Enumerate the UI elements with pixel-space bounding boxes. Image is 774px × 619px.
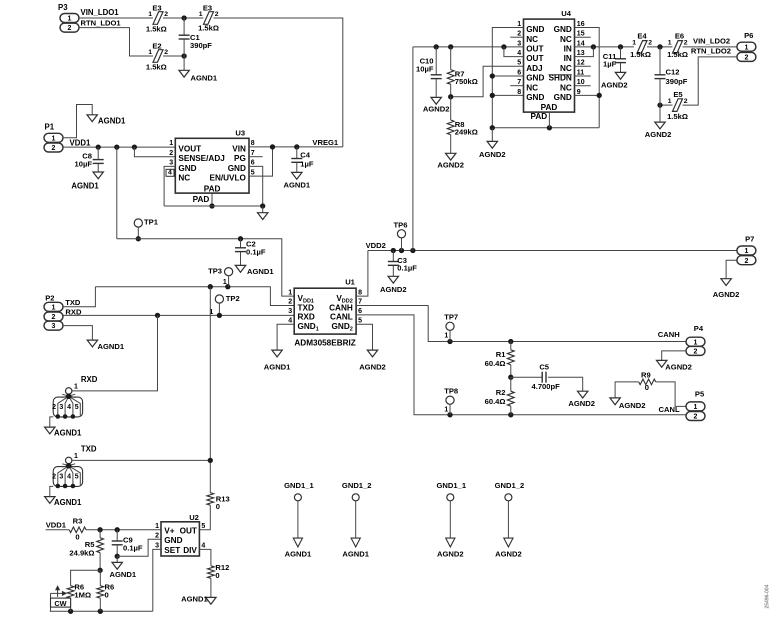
svg-text:0: 0 bbox=[215, 571, 219, 580]
svg-text:0.1µF: 0.1µF bbox=[123, 543, 143, 552]
svg-text:10: 10 bbox=[577, 79, 585, 86]
wire P3.1 to E3a bbox=[79, 17, 153, 19]
svg-text:TXD: TXD bbox=[65, 298, 81, 307]
svg-text:GND: GND bbox=[554, 93, 572, 102]
svg-text:2: 2 bbox=[215, 11, 219, 18]
wire E2 to C1 node bbox=[163, 55, 184, 57]
resistor R2 bbox=[485, 377, 515, 415]
header RXD bbox=[45, 375, 98, 437]
svg-text:AGND1: AGND1 bbox=[191, 74, 218, 83]
svg-text:GND: GND bbox=[526, 25, 544, 34]
svg-text:AGND1: AGND1 bbox=[98, 117, 126, 126]
capacitor C11 bbox=[603, 47, 626, 73]
svg-text:390pF: 390pF bbox=[666, 77, 688, 86]
svg-text:VDD1: VDD1 bbox=[70, 139, 91, 148]
svg-text:OUT: OUT bbox=[526, 45, 543, 54]
svg-text:3: 3 bbox=[155, 543, 159, 550]
svg-text:5: 5 bbox=[201, 523, 205, 530]
svg-text:10µF: 10µF bbox=[75, 160, 93, 169]
ground AGND2 below C3 bbox=[380, 276, 407, 294]
junction bbox=[547, 125, 552, 130]
svg-text:1MΩ: 1MΩ bbox=[74, 591, 91, 600]
svg-text:3: 3 bbox=[59, 404, 63, 411]
svg-text:SENSE/ADJ: SENSE/ADJ bbox=[178, 154, 224, 163]
ground AGND1 below C1 bbox=[179, 56, 218, 83]
svg-text:2: 2 bbox=[744, 55, 748, 62]
svg-text:60.4Ω: 60.4Ω bbox=[485, 397, 506, 406]
junction bbox=[97, 527, 102, 532]
svg-text:1.5kΩ: 1.5kΩ bbox=[667, 112, 688, 121]
svg-text:5: 5 bbox=[358, 318, 362, 325]
svg-text:CANL: CANL bbox=[330, 313, 353, 322]
svg-text:AGND1: AGND1 bbox=[284, 181, 311, 190]
ground AGND1 below P2 bbox=[87, 340, 125, 351]
wire U4 pin2 NC stub bbox=[510, 36, 523, 38]
capacitor C12 bbox=[655, 47, 688, 105]
svg-text:4: 4 bbox=[67, 474, 71, 481]
svg-text:PAD: PAD bbox=[531, 112, 548, 121]
svg-text:750kΩ: 750kΩ bbox=[455, 77, 478, 86]
junction bbox=[181, 15, 186, 20]
svg-text:PAD: PAD bbox=[204, 184, 221, 193]
svg-text:1: 1 bbox=[744, 248, 748, 255]
svg-text:9: 9 bbox=[577, 89, 581, 96]
wire U4 pin11 SHDN stub bbox=[575, 75, 591, 77]
junction bbox=[294, 144, 299, 149]
junction bbox=[399, 248, 404, 253]
junction bbox=[508, 339, 513, 344]
junction bbox=[657, 102, 662, 107]
svg-text:249kΩ: 249kΩ bbox=[455, 128, 478, 137]
svg-text:ADJ: ADJ bbox=[526, 64, 542, 73]
svg-text:13: 13 bbox=[577, 50, 585, 57]
svg-text:P2: P2 bbox=[45, 293, 54, 302]
wire TXD rail to U1 pin2 bbox=[95, 287, 294, 306]
svg-text:CANH: CANH bbox=[329, 303, 353, 312]
svg-text:1.5kΩ: 1.5kΩ bbox=[146, 63, 167, 72]
svg-text:AGND2: AGND2 bbox=[437, 549, 464, 558]
svg-text:1: 1 bbox=[223, 279, 227, 286]
wire U4 pin13 IN to pin14 bbox=[575, 47, 594, 57]
junction bbox=[260, 203, 265, 208]
svg-text:V+: V+ bbox=[164, 526, 174, 535]
wire U1 pin8 to VDD2 rail bbox=[356, 251, 368, 297]
wire U4 PAD to ground rail bbox=[548, 112, 550, 128]
svg-text:AGND2: AGND2 bbox=[601, 80, 628, 89]
wire P1.1 to AGND1 bbox=[63, 105, 92, 138]
svg-text:2: 2 bbox=[288, 299, 292, 306]
junction bbox=[208, 284, 213, 289]
svg-text:2: 2 bbox=[52, 404, 56, 411]
svg-text:1: 1 bbox=[199, 11, 203, 18]
test point TP6 bbox=[394, 221, 408, 251]
svg-text:TP6: TP6 bbox=[394, 221, 408, 230]
test point GND1_2 (left) bbox=[342, 481, 372, 558]
svg-text:5: 5 bbox=[251, 169, 255, 176]
svg-text:1µF: 1µF bbox=[603, 60, 617, 69]
svg-text:14: 14 bbox=[577, 40, 585, 47]
wire R9 left to AGND2 bbox=[615, 382, 639, 398]
svg-text:2: 2 bbox=[517, 31, 521, 38]
svg-text:C4: C4 bbox=[300, 151, 310, 160]
resistor R13 bbox=[207, 493, 230, 511]
svg-text:NC: NC bbox=[526, 83, 538, 92]
wire U4 pin3 OUT rail bbox=[413, 46, 524, 48]
ground AGND1 below C2 bbox=[235, 265, 274, 276]
svg-text:7: 7 bbox=[517, 79, 521, 86]
svg-text:GND1: GND1 bbox=[298, 322, 319, 333]
junction bbox=[490, 73, 495, 78]
resistor R8 bbox=[447, 97, 477, 154]
svg-text:GND: GND bbox=[554, 25, 572, 34]
svg-text:AGND2: AGND2 bbox=[437, 161, 464, 170]
wire U2 pin3 SET to bottom rail bbox=[153, 549, 161, 611]
capacitor C8 bbox=[75, 147, 104, 172]
svg-text:1: 1 bbox=[288, 289, 292, 296]
svg-text:P5: P5 bbox=[695, 390, 705, 399]
junction bbox=[434, 44, 439, 49]
svg-text:NC: NC bbox=[526, 35, 538, 44]
wire U4 left GND bracket bbox=[492, 28, 523, 128]
wire U4 pin6 to bracket bbox=[492, 75, 523, 77]
ground AGND1 top bbox=[87, 115, 126, 126]
svg-text:3: 3 bbox=[169, 160, 173, 167]
wire P6.2 to E5 bbox=[683, 57, 737, 105]
IC U4 bbox=[517, 9, 584, 112]
wire RXD rail P2.2 to U1 pin3 bbox=[63, 314, 294, 316]
net label RTN_LDO1 bbox=[81, 19, 122, 28]
wire P3.2 to E2 bbox=[79, 28, 153, 56]
net label VIN_LDO1 bbox=[81, 8, 120, 17]
svg-text:GND: GND bbox=[526, 93, 544, 102]
svg-text:25496-004: 25496-004 bbox=[765, 584, 771, 608]
wire U4 pin10 NC stub bbox=[575, 85, 591, 87]
junction bbox=[391, 248, 396, 253]
ground AGND2 below R8 bbox=[437, 153, 464, 169]
wire U4 right GND bracket bbox=[575, 28, 600, 128]
connector P4 bbox=[686, 324, 705, 355]
wire U4 pin15 NC stub bbox=[575, 36, 591, 38]
junction bbox=[447, 412, 452, 417]
svg-text:8: 8 bbox=[358, 289, 362, 296]
wire U4 pin12 NC stub bbox=[575, 65, 591, 67]
svg-text:NC: NC bbox=[560, 83, 572, 92]
ground AGND1 below C9 bbox=[110, 556, 137, 579]
resistor E4 bbox=[630, 32, 652, 59]
svg-text:AGND1: AGND1 bbox=[264, 362, 291, 371]
wire R5 bottom to potentiometer bbox=[71, 570, 101, 585]
net label CANL bbox=[659, 405, 680, 414]
wire U3 pin5 EN/UVLO to VIN bbox=[249, 147, 273, 176]
svg-text:AGND2: AGND2 bbox=[479, 150, 506, 159]
wire VDD1 rail to U1 pin1 bbox=[117, 239, 294, 296]
svg-text:16: 16 bbox=[577, 21, 585, 28]
svg-text:1: 1 bbox=[668, 98, 672, 105]
wire U2 pin4 DIV to R12 bbox=[199, 549, 211, 565]
junction bbox=[490, 93, 495, 98]
svg-text:1: 1 bbox=[668, 40, 672, 47]
svg-text:GND: GND bbox=[164, 536, 182, 545]
svg-text:PAD: PAD bbox=[541, 103, 558, 112]
svg-text:6: 6 bbox=[358, 308, 362, 315]
svg-text:8: 8 bbox=[251, 140, 255, 147]
resistor R9 bbox=[639, 371, 656, 392]
svg-text:1: 1 bbox=[52, 304, 56, 311]
capacitor C9 bbox=[112, 530, 143, 557]
svg-text:GND1_2: GND1_2 bbox=[495, 481, 525, 490]
svg-text:3: 3 bbox=[517, 40, 521, 47]
net label VDD2 bbox=[366, 241, 386, 250]
svg-text:4: 4 bbox=[168, 170, 172, 177]
svg-text:NC: NC bbox=[560, 64, 572, 73]
svg-text:AGND2: AGND2 bbox=[568, 399, 595, 408]
svg-text:E2: E2 bbox=[152, 41, 161, 50]
resistor R7 bbox=[447, 47, 477, 97]
wire TXD header to R13 node bbox=[72, 459, 210, 461]
wire U4 pin9 to bracket bbox=[575, 94, 600, 96]
svg-text:2: 2 bbox=[164, 49, 168, 56]
wire R3 to U2 pin1 bbox=[86, 529, 161, 531]
svg-text:GND1_1: GND1_1 bbox=[284, 481, 314, 490]
svg-text:1: 1 bbox=[632, 40, 636, 47]
junction bbox=[657, 44, 662, 49]
svg-text:E4: E4 bbox=[637, 32, 647, 41]
svg-text:P3: P3 bbox=[58, 3, 68, 12]
svg-text:0: 0 bbox=[216, 502, 220, 511]
wire U3 ground rail bbox=[164, 205, 263, 207]
wire VDD1 to R3 bbox=[46, 529, 69, 531]
wire R9 right to P5.1 bbox=[656, 382, 686, 407]
svg-text:U4: U4 bbox=[561, 9, 571, 18]
wire U3 pin8 VIN / VREG1 bbox=[249, 146, 343, 148]
capacitor C4 bbox=[291, 147, 314, 173]
wire CANH U1 pin7 to P4 bbox=[356, 306, 686, 342]
svg-text:GND2: GND2 bbox=[332, 322, 353, 333]
svg-text:CANL: CANL bbox=[659, 405, 680, 414]
wire U3 pin7 PG stub bbox=[249, 156, 263, 158]
svg-text:6: 6 bbox=[517, 69, 521, 76]
svg-text:1: 1 bbox=[52, 135, 56, 142]
junction bbox=[591, 44, 596, 49]
test point GND1_1 (left) bbox=[284, 481, 314, 558]
svg-text:0: 0 bbox=[105, 591, 109, 600]
svg-text:P4: P4 bbox=[694, 324, 704, 333]
svg-text:1: 1 bbox=[444, 333, 448, 340]
junction bbox=[447, 339, 452, 344]
connector P6 bbox=[737, 31, 756, 62]
resistor R5 bbox=[69, 530, 103, 571]
svg-text:VIN_LDO1: VIN_LDO1 bbox=[81, 8, 120, 17]
ground AGND2 below U4 bbox=[479, 128, 506, 159]
figure number bbox=[765, 584, 771, 608]
wire R13 to U2 pin5 OUT bbox=[199, 505, 210, 530]
svg-text:R3: R3 bbox=[73, 517, 83, 526]
resistor E5 bbox=[667, 90, 688, 121]
svg-text:0.1µF: 0.1µF bbox=[397, 263, 417, 272]
capacitor C1 bbox=[179, 18, 213, 56]
svg-text:GND: GND bbox=[178, 164, 196, 173]
svg-text:AGND1: AGND1 bbox=[54, 498, 82, 507]
capacitor C2 bbox=[235, 239, 266, 266]
wire CANL U1 pin6 to P5 bbox=[356, 315, 686, 415]
svg-text:IN: IN bbox=[564, 54, 572, 63]
svg-text:AGND2: AGND2 bbox=[495, 549, 522, 558]
svg-text:1.5kΩ: 1.5kΩ bbox=[630, 50, 651, 59]
wire P2.3 to AGND1 bbox=[63, 326, 92, 341]
svg-text:AGND1: AGND1 bbox=[285, 549, 312, 558]
svg-text:2: 2 bbox=[648, 40, 652, 47]
svg-text:5: 5 bbox=[75, 404, 79, 411]
test point GND1_2 (right) bbox=[495, 481, 525, 558]
svg-text:CW: CW bbox=[54, 599, 66, 608]
resistor R1 bbox=[485, 342, 515, 378]
ground below U3 bbox=[258, 206, 268, 220]
junction bbox=[181, 53, 186, 58]
svg-text:2: 2 bbox=[68, 25, 72, 32]
pin PAD label below U4 bbox=[531, 112, 548, 121]
svg-text:AGND1: AGND1 bbox=[71, 181, 99, 190]
test point GND1_1 (right) bbox=[437, 481, 467, 558]
junction bbox=[618, 44, 623, 49]
ground AGND2 below C12 bbox=[645, 105, 672, 139]
junction bbox=[68, 609, 73, 614]
svg-text:GND1_2: GND1_2 bbox=[342, 481, 372, 490]
wire VDD2 rail to P7 bbox=[368, 250, 737, 252]
wire U4 pin5 ADJ to R7/R8 node bbox=[451, 66, 524, 97]
junction bbox=[410, 248, 415, 253]
junction bbox=[96, 144, 101, 149]
svg-text:P7: P7 bbox=[745, 235, 754, 244]
resistor E3 (first) bbox=[146, 3, 168, 33]
wire U4 pin8 to bracket bbox=[492, 94, 523, 96]
wire LDO2 output to VDD2 rail bbox=[412, 47, 414, 251]
svg-text:TP2: TP2 bbox=[226, 294, 240, 303]
svg-text:3: 3 bbox=[59, 474, 63, 481]
net label VDD1 bbox=[70, 139, 91, 148]
label CW box bbox=[51, 598, 71, 608]
potentiometer R6 1M bbox=[51, 583, 92, 612]
wire VDD1 to TP1 rail bbox=[116, 147, 118, 239]
svg-text:EN/UVLO: EN/UVLO bbox=[209, 174, 246, 183]
test point TP1 bbox=[134, 218, 159, 239]
test point TP2 bbox=[209, 294, 239, 316]
svg-text:GND: GND bbox=[526, 74, 544, 83]
svg-text:1: 1 bbox=[744, 44, 748, 51]
ground AGND2 below P7 bbox=[713, 279, 740, 299]
svg-text:2: 2 bbox=[52, 474, 56, 481]
svg-text:PAD: PAD bbox=[193, 195, 210, 204]
wire P7.2 to AGND2 bbox=[726, 260, 737, 279]
svg-text:C12: C12 bbox=[666, 68, 680, 77]
svg-text:1: 1 bbox=[148, 49, 152, 56]
wire U3 PAD to ground rail bbox=[211, 193, 213, 206]
ground AGND2 below C5 bbox=[568, 391, 595, 408]
junction bbox=[115, 554, 120, 559]
svg-text:VIN: VIN bbox=[232, 145, 246, 154]
junction bbox=[208, 458, 213, 463]
svg-text:1: 1 bbox=[444, 406, 448, 413]
svg-text:1: 1 bbox=[517, 21, 521, 28]
svg-text:U1: U1 bbox=[345, 277, 355, 286]
svg-text:ADM3058EBRIZ: ADM3058EBRIZ bbox=[294, 339, 355, 348]
net label VDD1 at R3 bbox=[46, 521, 67, 530]
svg-text:2: 2 bbox=[52, 314, 56, 321]
net label VREG1 bbox=[312, 138, 339, 147]
svg-text:AGND2: AGND2 bbox=[665, 363, 692, 372]
svg-text:AGND1: AGND1 bbox=[54, 428, 82, 437]
svg-text:IN: IN bbox=[564, 45, 572, 54]
svg-text:CANH: CANH bbox=[658, 330, 680, 339]
wire U4 pin14 IN to E4 bbox=[575, 46, 635, 48]
svg-text:RTN_LDO2: RTN_LDO2 bbox=[691, 47, 731, 56]
ground AGND2 below P4 bbox=[657, 360, 692, 371]
svg-text:AGND2: AGND2 bbox=[645, 130, 672, 139]
svg-text:AGND1: AGND1 bbox=[247, 267, 274, 276]
svg-text:1: 1 bbox=[155, 523, 159, 530]
wire U4 pin4 OUT to pin3 bbox=[504, 47, 524, 57]
svg-text:2: 2 bbox=[52, 145, 56, 152]
svg-text:2: 2 bbox=[694, 349, 698, 356]
svg-text:5: 5 bbox=[517, 60, 521, 67]
test point TP3 bbox=[208, 267, 233, 287]
wire bottom rail bbox=[50, 610, 153, 612]
svg-text:3: 3 bbox=[288, 308, 292, 315]
svg-text:VOUT: VOUT bbox=[178, 145, 201, 154]
wire TXD net vertical to R13 bbox=[209, 287, 211, 493]
svg-text:E5: E5 bbox=[673, 90, 683, 99]
svg-text:11: 11 bbox=[577, 69, 585, 76]
connector P5 bbox=[686, 390, 705, 421]
net label VIN_LDO2 bbox=[693, 37, 730, 46]
svg-text:7: 7 bbox=[358, 299, 362, 306]
test point TP8 bbox=[444, 387, 458, 415]
svg-text:4: 4 bbox=[67, 404, 71, 411]
svg-text:E3: E3 bbox=[203, 3, 212, 12]
ground AGND1 below R12 bbox=[181, 594, 216, 604]
connector P7 bbox=[737, 235, 756, 265]
svg-text:C5: C5 bbox=[539, 363, 549, 372]
svg-text:60.4Ω: 60.4Ω bbox=[485, 359, 506, 368]
svg-text:PG: PG bbox=[234, 154, 246, 163]
svg-text:VIN_LDO2: VIN_LDO2 bbox=[693, 37, 730, 46]
svg-text:1.5kΩ: 1.5kΩ bbox=[146, 25, 167, 34]
svg-text:OUT: OUT bbox=[526, 54, 543, 63]
junction bbox=[238, 236, 243, 241]
junction bbox=[508, 412, 513, 417]
svg-text:RXD: RXD bbox=[81, 375, 98, 384]
connector P2 bbox=[44, 293, 63, 330]
svg-text:VREG1: VREG1 bbox=[312, 138, 339, 147]
ground AGND1 below C4 bbox=[284, 172, 311, 189]
wire E3a to E3b bbox=[163, 17, 204, 19]
wire U3 pin6 GND down bbox=[249, 166, 263, 206]
svg-text:R9: R9 bbox=[641, 371, 651, 380]
svg-text:AGND2: AGND2 bbox=[713, 290, 740, 299]
svg-text:2: 2 bbox=[164, 11, 168, 18]
wire E6 to P6.1 bbox=[683, 46, 737, 48]
svg-text:4: 4 bbox=[517, 50, 521, 57]
svg-text:AGND1: AGND1 bbox=[98, 342, 125, 351]
svg-text:AGND2: AGND2 bbox=[619, 401, 646, 410]
net label TXD at P2 bbox=[65, 298, 81, 307]
junction bbox=[155, 313, 160, 318]
IC U1 ADM3058EBRIZ bbox=[288, 277, 362, 347]
wire to U3 pin2 bbox=[134, 147, 175, 157]
ground AGND1 below U1 bbox=[264, 350, 291, 371]
junction bbox=[217, 313, 222, 318]
junction bbox=[448, 44, 453, 49]
junction bbox=[225, 284, 230, 289]
